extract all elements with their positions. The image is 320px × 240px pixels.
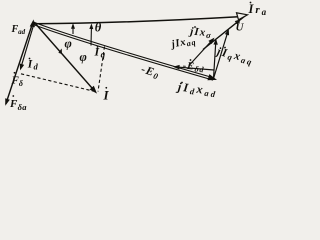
- svg-text:θ: θ: [95, 21, 102, 35]
- svg-text:I: I: [103, 88, 110, 103]
- svg-text:U: U: [236, 22, 245, 34]
- svg-text:φ: φ: [80, 50, 87, 64]
- svg-text:φ: φ: [65, 37, 72, 51]
